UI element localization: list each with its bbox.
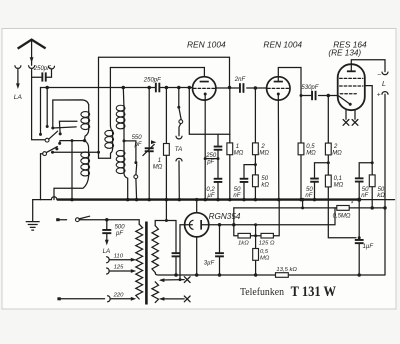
- wire secondary to bus: [165, 200, 167, 221]
- wire S3 to ground bus: [135, 179, 138, 200]
- wire 530pF line: [301, 95, 338, 97]
- wire filter cap column: [175, 221, 177, 276]
- resistor 50k no.2: [369, 175, 375, 187]
- resistor 0.5M no.3: [253, 249, 259, 261]
- junction 2M/0.1M: [327, 161, 330, 164]
- capacitor 250pF (grid leak): [214, 146, 223, 148]
- tube U4 RGN354 envelope: [185, 213, 209, 237]
- heater terminal X1: [343, 120, 349, 126]
- coil C upper (grid coil): [123, 105, 125, 129]
- wire feedback lower (grid cap lead): [110, 68, 204, 81]
- junction 50k bottom: [254, 198, 258, 202]
- wire tuning cap column: [148, 88, 150, 200]
- svg-text:0,1: 0,1: [334, 176, 342, 182]
- svg-text:MΩ: MΩ: [259, 151, 269, 157]
- svg-text:2nF: 2nF: [234, 77, 246, 83]
- node coil C tap: [123, 139, 126, 142]
- svg-text:125: 125: [114, 265, 125, 271]
- svg-text:(RE 134): (RE 134): [328, 48, 361, 57]
- wire 50nF no.3 branch: [359, 163, 372, 200]
- wire TA drop: [178, 88, 180, 107]
- svg-text:530pF: 530pF: [301, 85, 318, 91]
- mains switch blade: [79, 216, 89, 219]
- heater terminal X4: [184, 296, 190, 302]
- wire S2 pivot to ground: [41, 154, 43, 200]
- junction 2M top: [254, 86, 258, 90]
- capacitor filter (left): [172, 252, 181, 254]
- svg-text:1µF: 1µF: [363, 244, 374, 250]
- TA jack upper: [176, 136, 182, 139]
- switch S3 blade: [135, 164, 138, 175]
- wire coil C top lead: [122, 88, 125, 106]
- svg-text:50: 50: [234, 187, 241, 193]
- svg-text:500: 500: [115, 224, 126, 230]
- antenna jack (top): [29, 66, 35, 69]
- tube U1 top cap bar: [200, 81, 209, 83]
- svg-text:REN 1004: REN 1004: [187, 40, 226, 50]
- resistor 1k: [238, 233, 250, 238]
- junction filter cap bottom: [174, 273, 178, 277]
- junction v72 top: [71, 139, 74, 142]
- tube U3 grid lead diagonal: [338, 96, 350, 105]
- switch S2 blade: [46, 147, 57, 153]
- tube U1 REN1004 envelope: [193, 77, 216, 100]
- junction TA top: [177, 86, 181, 90]
- wire W1 antenna coil feed: [53, 100, 89, 105]
- wire U2 plate loop: [278, 68, 301, 96]
- svg-text:1: 1: [236, 144, 239, 150]
- heater terminal X2: [352, 120, 358, 126]
- svg-text:MΩ: MΩ: [306, 151, 316, 157]
- wire 50nF no.2 branch: [315, 163, 329, 200]
- svg-text:L: L: [382, 81, 386, 88]
- wire 1k/125 row: [234, 200, 279, 236]
- resistor 0.1M: [325, 175, 331, 187]
- svg-text:MΩ: MΩ: [234, 151, 244, 157]
- tube U3 screen (dashed): [340, 77, 363, 79]
- svg-text:pF: pF: [134, 142, 142, 148]
- wire grid-leak node line: [189, 88, 230, 135]
- S1 contact c: [59, 132, 62, 135]
- wire anode line to feed corner: [234, 208, 335, 225]
- capacitor 500pF: [102, 229, 111, 231]
- resistor 50k: [253, 175, 259, 187]
- TA switch blade: [179, 109, 181, 120]
- TA switch pivot: [179, 120, 183, 124]
- svg-text:220: 220: [113, 293, 125, 299]
- antenna lead-in arrowhead: [30, 57, 34, 63]
- svg-text:TA: TA: [175, 146, 182, 153]
- capacitor 50nF no.3: [355, 177, 364, 179]
- junction coil B tap wire: [97, 151, 100, 154]
- wire 1M ohm column: [165, 88, 167, 200]
- resistor 0.5M (decoupling): [337, 206, 349, 211]
- tap 220 wire: [110, 298, 132, 300]
- junction U4 bottom to rail: [195, 273, 199, 277]
- wire coil tap to switch S3: [124, 141, 136, 162]
- junction tuning cap bottom: [147, 198, 151, 202]
- ground bus thin extension: [359, 199, 394, 201]
- coil A1 (antenna coil upper): [88, 105, 90, 112]
- junction cathode/capacitor: [204, 157, 207, 160]
- svg-text:13,5 kΩ: 13,5 kΩ: [276, 267, 297, 273]
- tube U3 inner dashed: [340, 93, 356, 95]
- wire B+ line (0.5M row): [234, 207, 385, 209]
- ground wire: [33, 199, 52, 201]
- junction 0.1M to 1uF node: [358, 236, 361, 239]
- svg-text:1kΩ: 1kΩ: [238, 241, 249, 247]
- wire coil A1 to A2 link: [85, 130, 89, 140]
- junction 0.2uF bottom: [216, 198, 220, 202]
- tube U3 heater leg 2: [354, 110, 356, 119]
- tube U3 plate (dashed): [340, 85, 363, 87]
- resistor 2M (U2 grid): [253, 143, 259, 155]
- tube U2 REN1004 envelope: [267, 77, 290, 100]
- TA jack lower: [176, 158, 182, 161]
- junction 50nF no.2 bottom: [313, 198, 317, 202]
- junction 1uF to rail: [357, 273, 361, 277]
- wire grid cap to cathode line: [205, 158, 218, 160]
- wire feedback upper (plate to coil B): [99, 57, 230, 87]
- coil A2 (antenna coil lower): [88, 149, 90, 152]
- switch S2 pivot: [43, 152, 47, 156]
- heater wire 2: [159, 297, 164, 301]
- wire U3 screen out: [365, 86, 372, 208]
- svg-text:LA: LA: [14, 94, 23, 101]
- junction 0.5M3 bottom: [254, 273, 258, 277]
- variable capacitor 550pF plates: [145, 147, 154, 149]
- resistor 1M (grid leak U1): [227, 143, 233, 155]
- resistor 2M no.2: [325, 143, 331, 155]
- S1 contact b: [51, 127, 54, 130]
- junction 50nF bottom: [242, 198, 246, 202]
- heater terminal X3: [184, 277, 190, 283]
- junction plate line: [300, 94, 303, 97]
- junction anode/divider: [254, 223, 257, 226]
- svg-text:+: +: [377, 91, 381, 98]
- speaker plus jack: [382, 92, 388, 95]
- LA arrowhead: [16, 83, 20, 89]
- junction stub bottom: [301, 206, 304, 209]
- mains switch pivot: [76, 218, 80, 222]
- TA switch contact: [177, 106, 180, 109]
- svg-text:µF: µF: [207, 193, 214, 199]
- svg-text:0,5: 0,5: [260, 249, 269, 255]
- svg-text:1: 1: [158, 158, 161, 164]
- tube U2 cathode lead: [277, 94, 280, 200]
- S1 contact d: [39, 133, 42, 136]
- capacitor 250pF (antenna series): [41, 72, 43, 81]
- capacitor 0.2uF: [214, 178, 223, 180]
- tap 110 jack: [107, 257, 110, 263]
- wire bus drop to S1 contact a: [46, 88, 48, 126]
- capacitor 530pF: [311, 91, 313, 100]
- wire feedback riser (coil B bottom): [98, 57, 100, 158]
- heater winding (RGN): [152, 282, 159, 303]
- wire tap T1 to coil A1 ring2: [59, 121, 77, 134]
- wire switch to transformer: [79, 220, 139, 225]
- svg-text:MΩ: MΩ: [260, 256, 270, 262]
- LA jack (top-left): [15, 66, 21, 69]
- wire antenna jack to junction: [31, 70, 33, 78]
- coil C lower (grid coil): [123, 151, 125, 174]
- tube U3 RES164 envelope: [338, 64, 365, 110]
- tube U4 filament lead: [180, 225, 192, 280]
- junction v72 bus: [70, 198, 74, 202]
- svg-text:kΩ: kΩ: [261, 183, 269, 189]
- wire W1 corner down to S1 contact b: [52, 100, 54, 128]
- wire coil B top riser: [110, 68, 112, 131]
- junction secondary top: [165, 219, 168, 222]
- antenna symbol: [18, 40, 46, 49]
- svg-text:0,2: 0,2: [206, 187, 215, 193]
- junction tuning cap top: [147, 86, 151, 90]
- capacitor 250pF (grid series): [155, 83, 157, 93]
- junction 1k/125: [254, 234, 257, 237]
- wire S2 contact to coil B bottom: [53, 151, 99, 153]
- svg-text:pF: pF: [115, 231, 123, 237]
- tube U1 cathode: [204, 93, 207, 96]
- junction cap branch: [217, 157, 220, 160]
- transformer primary winding: [136, 224, 143, 299]
- junction speaker line: [383, 206, 387, 210]
- svg-text:MΩ: MΩ: [332, 151, 342, 157]
- S1 contact a: [46, 125, 49, 128]
- wire tap T2 to coil A1 ring3: [53, 127, 76, 128]
- wire coil C middle: [123, 129, 125, 151]
- svg-text:550: 550: [132, 135, 143, 141]
- wire coil A2 bottom return: [54, 176, 89, 200]
- capacitor 50nF no.2: [310, 178, 319, 180]
- tap 125 wire: [109, 270, 132, 272]
- tap 125 jack: [107, 268, 110, 274]
- svg-text:MΩ: MΩ: [153, 165, 163, 171]
- capacitor 50nF no.1: [240, 178, 249, 180]
- wire junction to S2 contact: [60, 141, 85, 143]
- wire coil B bottom tail: [99, 148, 113, 158]
- svg-text:nF: nF: [305, 193, 312, 199]
- junction 2M/50k: [254, 163, 257, 166]
- tube U2 grid (dashed): [268, 87, 290, 89]
- svg-text:3µF: 3µF: [204, 260, 215, 266]
- junction bus end (big): [357, 198, 361, 202]
- tube U4 bottom stub: [196, 237, 198, 275]
- svg-text:nF: nF: [233, 193, 240, 199]
- ground symbol: [26, 222, 40, 231]
- wire TA jack to ground bus: [178, 161, 180, 200]
- tube U1 cathode lead: [204, 94, 206, 200]
- tube U4 top stem: [196, 200, 198, 213]
- tube U3 heater leg 1: [345, 110, 347, 119]
- tube U1 grid (dashed): [194, 87, 216, 89]
- mains wire to 220 tap: [59, 298, 105, 300]
- heater wire 1: [159, 278, 164, 282]
- wire 500pF to LA arrow: [106, 234, 108, 240]
- capacitor 1uF: [355, 239, 364, 241]
- capacitor 2nF: [239, 83, 241, 93]
- svg-text:LA: LA: [103, 248, 111, 255]
- antenna lead-in wire: [31, 40, 33, 66]
- tube U3 cathode: [349, 103, 352, 106]
- svg-text:2: 2: [333, 144, 338, 150]
- svg-text:2: 2: [260, 144, 265, 150]
- antenna jack 2: [49, 66, 55, 69]
- transformer core: [145, 222, 148, 305]
- LA arrowhead (mains): [105, 240, 109, 246]
- wire 2M column: [254, 88, 256, 200]
- wire B+ left corner down: [233, 208, 235, 225]
- transformer secondary winding: [152, 226, 158, 273]
- junction filament/heater: [179, 278, 182, 281]
- svg-text:−: −: [377, 72, 381, 79]
- wire bus corner to S1 contact d: [40, 88, 42, 135]
- S2 contact b: [55, 147, 58, 150]
- wire junction down to ground bus: [71, 141, 73, 200]
- svg-text:50: 50: [362, 187, 369, 193]
- junction 3uF bottom: [218, 273, 222, 277]
- tap 220 jack: [108, 296, 111, 302]
- wire secondary top lead: [155, 221, 176, 226]
- resistor 1M (tuning): [164, 144, 170, 156]
- tube U3 top stem: [350, 64, 352, 70]
- svg-text:REN 1004: REN 1004: [263, 40, 302, 50]
- chassis ground bus (thick): [57, 198, 359, 200]
- tube U2 cathode: [277, 93, 280, 96]
- switch S3 pivot: [134, 175, 138, 179]
- junction grid node: [228, 86, 232, 90]
- S2 contact a: [58, 142, 61, 145]
- svg-text:250pF: 250pF: [143, 77, 161, 83]
- svg-text:RGN354: RGN354: [209, 212, 241, 221]
- svg-text:kΩ: kΩ: [377, 193, 385, 199]
- junction stub top: [301, 198, 305, 202]
- junction 1M top: [165, 86, 169, 90]
- junction coil A1/A2: [83, 139, 86, 142]
- switch S3 contact: [134, 161, 137, 164]
- S2 contact c: [51, 151, 54, 154]
- svg-text:110: 110: [114, 253, 124, 259]
- tube U2 top stem: [277, 77, 279, 81]
- wire antenna line down to switch S1: [32, 77, 45, 140]
- svg-text:50: 50: [261, 176, 268, 182]
- junction S3 to bus: [135, 198, 139, 202]
- svg-text:50: 50: [378, 187, 385, 193]
- wire 250pF grid cap branch: [217, 134, 219, 199]
- wire speaker plus down: [384, 94, 386, 275]
- wire TA pivot to jack: [179, 124, 181, 136]
- svg-text:0,5: 0,5: [306, 144, 315, 150]
- wire 2M no.2 column: [328, 96, 356, 238]
- tube U4 filament arc: [189, 220, 193, 229]
- B+ rail (bottom): [155, 273, 385, 276]
- junction 0.5M bottom: [299, 198, 303, 202]
- wire hop at bus end: [51, 197, 57, 200]
- junction anode/1k: [232, 223, 236, 227]
- variable capacitor arrow: [143, 144, 154, 155]
- junction coil C to bus: [126, 198, 130, 202]
- capacitor 3uF: [215, 252, 224, 254]
- junction coil C bus: [122, 86, 126, 90]
- junction 530pF right: [327, 94, 331, 98]
- junction U2 cathode to bus: [277, 198, 281, 202]
- junction U1 cathode to bus: [203, 198, 207, 202]
- wire ground drop: [32, 200, 34, 222]
- wire 0.5M column: [300, 96, 302, 200]
- wire coil C bottom tail to ground bus: [124, 174, 128, 200]
- junction TA bottom: [178, 198, 182, 202]
- junction screen node: [371, 161, 374, 164]
- wire LA jack down: [17, 70, 19, 84]
- wire 50nF branch: [244, 165, 255, 200]
- switch S1 pivot: [45, 138, 49, 142]
- wire bus stub: [302, 200, 304, 208]
- svg-text:50: 50: [306, 187, 313, 193]
- tap 110 wire: [109, 259, 132, 261]
- wire plate U1 to 2nF: [216, 87, 267, 89]
- resistor 125ohm: [261, 233, 273, 238]
- tube U4 anode bar: [200, 220, 202, 230]
- svg-text:pF: pF: [206, 160, 214, 166]
- switch S1 blade: [49, 131, 58, 139]
- junction 50k2 bottom: [370, 206, 374, 210]
- tube U4 anode lead: [202, 224, 234, 226]
- svg-text:MΩ: MΩ: [334, 183, 344, 189]
- junction anode/3uF: [218, 223, 222, 227]
- tube U3 grid bar: [347, 70, 356, 72]
- wire divider stub to anode line: [255, 225, 257, 236]
- wire top bus (antenna to grid): [41, 87, 193, 89]
- svg-text:T 131 W: T 131 W: [291, 283, 337, 300]
- mains terminal stub: [57, 219, 67, 221]
- svg-text:nF: nF: [361, 193, 368, 199]
- wire 0.5M no.3 column: [255, 236, 257, 275]
- junction grid leak bottom: [228, 198, 232, 202]
- wire U3 plate to speaker minus: [351, 60, 385, 72]
- wire 500pF column: [106, 220, 108, 229]
- speaker minus jack: [382, 72, 388, 75]
- junction 1M bottom: [165, 198, 169, 202]
- junction bus x47: [45, 86, 49, 90]
- svg-text:Telefunken: Telefunken: [240, 287, 285, 298]
- wire 1uF column: [358, 200, 360, 275]
- svg-text:125 Ω: 125 Ω: [259, 241, 275, 247]
- junction U4 stem to bus: [195, 198, 199, 202]
- wire coil A2 link: [85, 141, 89, 148]
- wire 3uF column: [219, 225, 221, 275]
- junction 500pF tap: [105, 218, 109, 222]
- coil B (feedback coil): [112, 131, 114, 149]
- tube U2 top cap bar: [274, 81, 283, 83]
- resistor 0.5M (U2): [298, 143, 304, 155]
- wire junction to second jack: [32, 70, 52, 77]
- wire 1M grid leak column: [229, 88, 231, 200]
- junction grid-leak left: [188, 86, 192, 90]
- resistor 13.5k: [276, 273, 289, 278]
